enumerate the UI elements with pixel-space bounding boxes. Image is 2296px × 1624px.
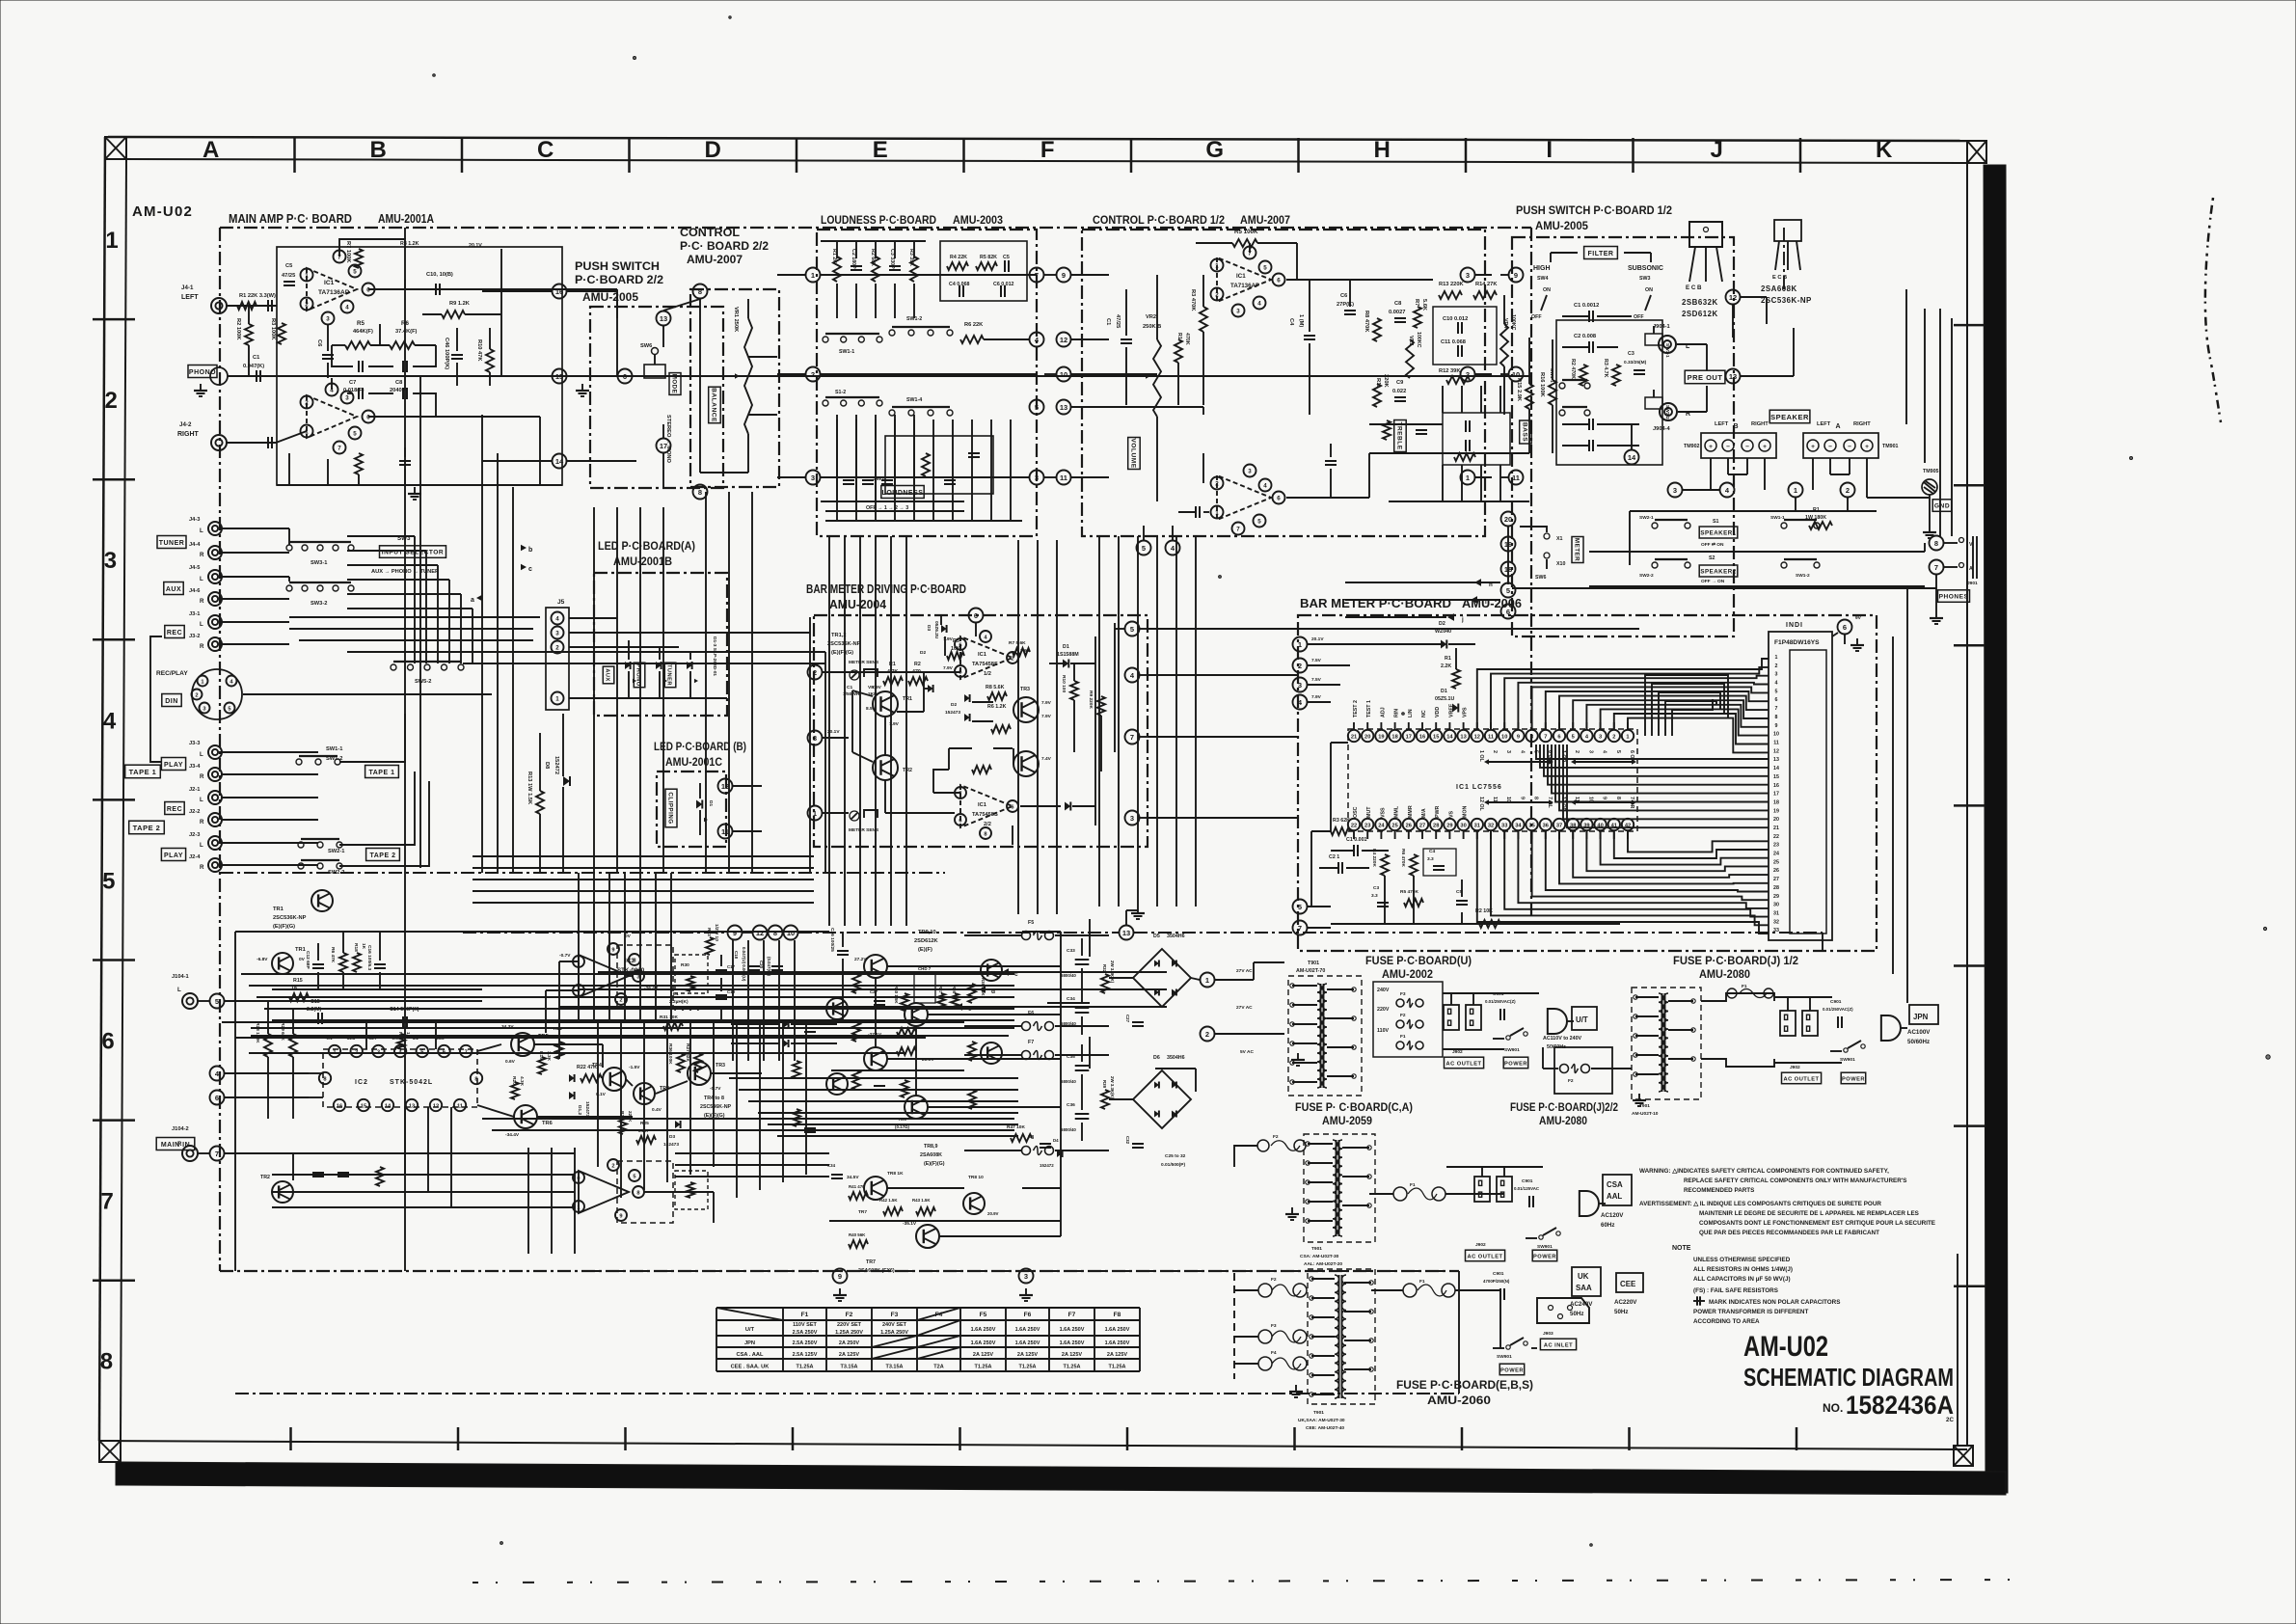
resistor R30 5W 0.47 <box>675 955 708 993</box>
svg-text:F7: F7 <box>1068 1312 1076 1318</box>
svg-text:6: 6 <box>366 415 370 421</box>
coil L1 2.2uH <box>669 991 698 1011</box>
svg-text:23: 23 <box>1773 843 1779 849</box>
svg-text:F1: F1 <box>1410 1182 1416 1188</box>
svg-text:AC220V: AC220V <box>1614 1299 1637 1306</box>
bar board node 3 7.5V <box>1293 677 1341 692</box>
svg-text:R32: R32 <box>1102 964 1107 973</box>
svg-text:4: 4 <box>1263 483 1267 490</box>
svg-text:R2 100K: R2 100K <box>235 318 241 340</box>
capacitor C5 bar board <box>1456 880 1468 924</box>
svg-text:OFF → 1 → 2 → 3: OFF → 1 → 2 → 3 <box>866 505 908 511</box>
svg-text:5: 5 <box>1615 750 1621 753</box>
transformer EBS stubs <box>1289 1277 1373 1397</box>
jack J3-3 PLAY L <box>189 741 222 759</box>
control 2/2 wires <box>700 299 777 473</box>
svg-text:R9 220K: R9 220K <box>1088 690 1094 709</box>
svg-text:J: J <box>1711 137 1723 163</box>
sheet left border band <box>99 137 126 1441</box>
svg-text:17: 17 <box>1406 734 1412 740</box>
svg-text:R3 4.7K: R3 4.7K <box>1603 359 1608 378</box>
svg-text:2: 2 <box>105 388 118 414</box>
svg-text:8: 8 <box>698 488 702 497</box>
svg-text:2: 2 <box>1215 481 1219 488</box>
svg-text:3: 3 <box>555 631 559 637</box>
label SW3 INPUT SELECTOR <box>380 535 446 557</box>
svg-text:IC1 LC7556: IC1 LC7556 <box>1456 784 1502 791</box>
resistor R28 100K vertical <box>255 1001 272 1119</box>
transformer U secondary stubs <box>1290 984 1356 1084</box>
svg-text:21: 21 <box>1351 734 1357 740</box>
fuse U wires to outlets <box>1443 993 1539 1049</box>
svg-text:C1: C1 <box>253 355 259 361</box>
label PHONES <box>1938 590 1970 603</box>
svg-text:D5: D5 <box>1153 934 1160 939</box>
svg-text:IC1: IC1 <box>324 280 335 286</box>
corner register mark top-right <box>1967 141 1986 163</box>
capacitor C16 100/6.3 <box>366 932 386 989</box>
svg-text:G: G <box>1205 137 1224 163</box>
loudness switch SW1-1 <box>823 334 882 355</box>
svg-text:0.4V: 0.4V <box>652 1107 662 1113</box>
svg-text:5: 5 <box>215 997 219 1006</box>
control node 9 <box>1044 268 1109 283</box>
transistor TR2 lower <box>260 1175 293 1203</box>
svg-text:B: B <box>370 137 387 163</box>
svg-text:DIN: DIN <box>165 698 178 705</box>
LED PHONO <box>634 647 667 698</box>
svg-text:16: 16 <box>1773 783 1779 789</box>
svg-text:100KC: 100KC <box>1416 332 1421 348</box>
svg-text:14: 14 <box>1628 453 1636 462</box>
transformer T901 EBS <box>1298 1269 1375 1431</box>
svg-text:2.2K: 2.2K <box>1441 663 1451 669</box>
bus nodes 9 12 8 10 <box>728 926 798 940</box>
svg-text:D6: D6 <box>1153 1055 1160 1061</box>
bass network box <box>1443 413 1510 465</box>
svg-text:0: 0 <box>577 1176 580 1181</box>
svg-text:M/A: M/A <box>1421 808 1427 818</box>
capacitor C18 C20 labels <box>734 947 783 982</box>
svg-text:7.9V: 7.9V <box>1311 694 1322 700</box>
svg-text:4: 4 <box>1602 750 1607 753</box>
svg-text:5: 5 <box>353 269 357 276</box>
label PHONO <box>188 365 217 378</box>
svg-text:J902: J902 <box>1452 1049 1463 1055</box>
resistor R8 470K <box>1364 311 1381 341</box>
resistor R15 2.9K <box>1516 338 1533 453</box>
svg-text:PLAY: PLAY <box>164 853 183 859</box>
bar meter mid diodes <box>945 694 993 721</box>
svg-text:6: 6 <box>623 372 627 381</box>
svg-text:1: 1 <box>577 1204 580 1210</box>
power node 4 <box>210 1067 310 1081</box>
transistor TR1 bar <box>866 685 912 727</box>
bridge rectifier D5 <box>1133 934 1191 1007</box>
svg-text:(E)(F)(G): (E)(F)(G) <box>924 1161 945 1167</box>
svg-text:C6: C6 <box>1340 293 1347 299</box>
maze wiring top fan <box>1477 659 1769 752</box>
driver area long horizontals <box>675 1078 1018 1177</box>
svg-text:20.9V: 20.9V <box>922 1057 934 1063</box>
svg-text:1W 180K: 1W 180K <box>1805 515 1826 521</box>
svg-text:C36: C36 <box>1067 1102 1075 1108</box>
svg-text:C32: C32 <box>1125 1136 1130 1145</box>
svg-text:R40 56K: R40 56K <box>849 1232 866 1237</box>
svg-text:6800/40: 6800/40 <box>1061 1079 1076 1084</box>
wire control mid h <box>1109 406 1203 408</box>
svg-text:D3: D3 <box>926 625 932 631</box>
svg-text:23: 23 <box>1364 823 1370 828</box>
svg-text:28: 28 <box>1773 885 1779 891</box>
svg-text:PUSH SWITCH P·C·BOARD 1/2: PUSH SWITCH P·C·BOARD 1/2 <box>1516 203 1672 217</box>
svg-text:F8: F8 <box>1028 1135 1034 1141</box>
speaker switch SW1-2 <box>1781 559 1820 579</box>
svg-text:FUSE P· C·BOARD(C,A): FUSE P· C·BOARD(C,A) <box>1295 1100 1413 1114</box>
svg-text:2SB632K: 2SB632K <box>1682 298 1718 307</box>
speaker switch SW1-1 <box>1770 515 1820 528</box>
transformer T901 J <box>1632 988 1701 1117</box>
svg-text:J5: J5 <box>557 599 565 606</box>
svg-text:4: 4 <box>345 305 349 311</box>
plug CSA <box>1580 1191 1606 1216</box>
loudness lower inner box <box>885 436 993 494</box>
capacitor C12 68P <box>305 943 324 989</box>
svg-text:J4-1: J4-1 <box>181 284 194 291</box>
svg-text:IC1: IC1 <box>978 802 986 808</box>
svg-text:C46 100P(K): C46 100P(K) <box>444 338 449 369</box>
svg-text:AMU-2005: AMU-2005 <box>1535 219 1588 232</box>
svg-text:7: 7 <box>1775 706 1778 712</box>
wire pin12 to pre-out <box>1733 305 1794 376</box>
svg-text:2: 2 <box>619 997 622 1003</box>
svg-text:5: 5 <box>1142 544 1146 553</box>
sheet right border <box>1966 141 1968 1447</box>
capacitor C1 coupling <box>243 355 264 382</box>
jack J3-2 REC R <box>189 634 222 651</box>
fuse F8 supply <box>964 1135 1109 1155</box>
svg-text:TA7136AP: TA7136AP <box>1230 283 1259 289</box>
svg-text:2W 3.3K(K): 2W 3.3K(K) <box>1110 961 1115 984</box>
wire phono stage to bus <box>405 228 501 376</box>
svg-text:J104-2: J104-2 <box>172 1126 189 1132</box>
speaker terminal strip A <box>1803 421 1899 458</box>
svg-text:F1: F1 <box>1419 1279 1425 1285</box>
jack J904-4 R preout <box>1653 403 1690 432</box>
power rail top wire <box>235 932 829 1271</box>
svg-text:D4: D4 <box>1053 1138 1059 1143</box>
svg-text:RECOMMENDED PARTS: RECOMMENDED PARTS <box>1684 1187 1754 1194</box>
svg-text:C10, 10(B): C10, 10(B) <box>426 272 453 278</box>
LC7556 bottom pin row <box>1348 797 1634 839</box>
svg-text:0V: 0V <box>299 957 306 962</box>
wire speaker A to phones <box>1796 498 1929 511</box>
resistor R10 100 <box>1061 675 1078 700</box>
svg-text:AMU-2001A: AMU-2001A <box>378 211 434 226</box>
bridge rectifier D6 <box>1133 1055 1191 1128</box>
svg-text:C17: C17 <box>727 964 736 969</box>
op-amp IC1 pins <box>301 251 375 325</box>
svg-text:2SA608K: 2SA608K <box>920 1152 942 1158</box>
label GND <box>1932 500 1952 512</box>
svg-text:2: 2 <box>1215 292 1219 299</box>
svg-text:T901: T901 <box>1308 961 1319 966</box>
balance pot VR1 <box>729 299 752 473</box>
svg-text:10: 10 <box>1501 734 1507 740</box>
svg-text:7: 7 <box>1236 527 1240 533</box>
capacitor C8 0.0027 <box>1389 301 1406 322</box>
svg-text:AC100V: AC100V <box>1907 1029 1931 1036</box>
svg-text:8: 8 <box>636 1190 639 1196</box>
LC7556 top arrows <box>1484 759 1636 765</box>
svg-text:0.01/250VAC(Z): 0.01/250VAC(Z) <box>1485 999 1516 1004</box>
jack J4-5 AUX L <box>189 565 222 583</box>
svg-text:MARK INDICATES NON POLAR CAPAC: MARK INDICATES NON POLAR CAPACITORS <box>1709 1299 1840 1306</box>
svg-text:5: 5 <box>959 669 961 675</box>
svg-text:22: 22 <box>1351 823 1357 828</box>
svg-text:13: 13 <box>660 314 667 323</box>
svg-text:2SD612K: 2SD612K <box>914 938 939 944</box>
svg-text:2.5A 250V: 2.5A 250V <box>793 1340 818 1346</box>
svg-text:20.1V: 20.1V <box>1311 636 1324 642</box>
svg-text:9: 9 <box>1517 734 1520 740</box>
svg-text:FUSE P·C·BOARD(U): FUSE P·C·BOARD(U) <box>1365 954 1472 967</box>
svg-text:26: 26 <box>1406 823 1412 828</box>
svg-text:6: 6 <box>1277 496 1281 502</box>
svg-text:6: 6 <box>443 1049 446 1055</box>
svg-text:BASS: BASS <box>1521 422 1527 442</box>
control node 13 <box>1057 400 1110 415</box>
phones nodes 8 7 <box>1930 536 1944 575</box>
svg-text:5: 5 <box>353 431 357 438</box>
label AUX <box>164 582 183 595</box>
svg-text:C18: C18 <box>734 951 739 960</box>
svg-text:19: 19 <box>1773 808 1779 814</box>
svg-text:T2A: T2A <box>933 1365 943 1370</box>
label U/T <box>1572 1007 1597 1030</box>
bar board node 2 7.5V <box>1293 658 1351 673</box>
svg-text:1: 1 <box>201 679 203 685</box>
svg-text:2SD612K: 2SD612K <box>1682 310 1718 318</box>
resistor R10 47K <box>476 328 494 386</box>
loudness node 3 <box>777 471 821 485</box>
svg-text:SPEAKER2: SPEAKER2 <box>1700 569 1736 576</box>
filter pushbutton SW3-1 <box>1645 326 1670 358</box>
svg-text:1.6A 250V: 1.6A 250V <box>1015 1340 1040 1346</box>
svg-text:BAR METER P·C·BOARD: BAR METER P·C·BOARD <box>1300 596 1451 610</box>
svg-text:F3: F3 <box>1400 991 1406 997</box>
svg-text:3: 3 <box>1466 271 1470 280</box>
label AC INLET <box>1540 1331 1576 1350</box>
svg-text:12: 12 <box>1773 748 1779 754</box>
svg-text:TR9,10: TR9,10 <box>918 930 936 935</box>
svg-text:MON: MON <box>1463 805 1469 818</box>
svg-text:AM-U02T-70: AM-U02T-70 <box>1296 968 1325 974</box>
fuse EBS F2 F3 F4 loops <box>1258 1277 1307 1370</box>
resistor R7 100K <box>345 241 363 268</box>
capacitor C6 550(F) <box>316 324 334 378</box>
svg-text:D8: D8 <box>544 762 550 769</box>
transistor TR3 bar <box>1013 687 1052 722</box>
svg-text:SW901: SW901 <box>1504 1047 1520 1053</box>
svg-text:4: 4 <box>1775 681 1778 687</box>
svg-text:6: 6 <box>1277 278 1281 284</box>
fuse CA F2 loop <box>1234 1134 1306 1167</box>
svg-text:SAA: SAA <box>1576 1284 1592 1292</box>
svg-text:5: 5 <box>102 868 115 894</box>
svg-text:HIGH: HIGH <box>1533 265 1551 272</box>
wire right edge verticals <box>1925 309 1952 536</box>
speaker switch SW2-1 <box>1639 515 1690 528</box>
resistor R5 10K bar <box>947 638 964 660</box>
svg-text:2A 125V: 2A 125V <box>1062 1352 1083 1358</box>
svg-text:152472: 152472 <box>1040 1163 1054 1168</box>
wire control bus h2 <box>1109 373 1157 375</box>
svg-text:3.3: 3.3 <box>1427 856 1434 862</box>
svg-text:AC OUTLET: AC OUTLET <box>1467 1254 1502 1259</box>
svg-text:R42 1.5K: R42 1.5K <box>879 1198 898 1203</box>
svg-text:POWER: POWER <box>1504 1061 1527 1067</box>
label LOUDNESS switch <box>866 476 924 511</box>
svg-text:3: 3 <box>1035 474 1039 482</box>
svg-text:AM-U02T-10: AM-U02T-10 <box>1632 1111 1659 1117</box>
svg-text:POWER: POWER <box>1533 1254 1556 1259</box>
bus arrows c d e <box>559 968 1167 1013</box>
svg-text:REPLACE SAFETY CRITICAL COMPON: REPLACE SAFETY CRITICAL COMPONENTS ONLY … <box>1684 1177 1906 1184</box>
svg-text:R5: R5 <box>357 320 365 327</box>
resistor R6 1.2K bar <box>987 704 1011 733</box>
svg-text:1K: 1K <box>361 943 366 950</box>
svg-text:9V: 9V <box>1855 615 1862 621</box>
svg-text:TR8 1K: TR8 1K <box>887 1171 904 1177</box>
svg-text:BALANCE: BALANCE <box>710 388 716 422</box>
svg-text:R6 47K: R6 47K <box>330 947 336 963</box>
svg-text:LED P·C·BOARD (B): LED P·C·BOARD (B) <box>654 740 746 753</box>
svg-text:7: 7 <box>101 1189 114 1215</box>
wire loudness bus 3 <box>821 476 1029 478</box>
plug JPN <box>1881 1015 1907 1041</box>
svg-text:27.2V: 27.2V <box>854 957 867 962</box>
svg-text:B: B <box>1733 423 1738 430</box>
svg-text:AMU-2004: AMU-2004 <box>829 597 887 611</box>
svg-text:c: c <box>1014 971 1018 978</box>
op-amp IC1 TA75458S half2 <box>960 785 1013 827</box>
wire left channel long rail <box>405 289 617 376</box>
svg-text:464K(F): 464K(F) <box>353 329 373 335</box>
svg-text:4: 4 <box>1519 750 1525 753</box>
svg-text:2.2µH(K): 2.2µH(K) <box>669 999 689 1005</box>
svg-text:R1: R1 <box>1176 333 1182 339</box>
svg-text:0.01/250VAC(Z): 0.01/250VAC(Z) <box>1823 1007 1853 1012</box>
svg-text:21: 21 <box>1773 826 1779 831</box>
vertical bus wires right of control <box>1018 540 1057 914</box>
svg-text:4.3K: 4.3K <box>519 1076 525 1087</box>
svg-text:U/T: U/T <box>745 1327 755 1333</box>
svg-text:AMU-2001C: AMU-2001C <box>665 755 722 769</box>
svg-text:PRE OUT: PRE OUT <box>1688 373 1723 382</box>
transistor TR1 power <box>257 947 306 974</box>
svg-text:9: 9 <box>733 929 737 937</box>
svg-text:C8: C8 <box>395 380 402 386</box>
speaker terminal strip B <box>1684 421 1776 458</box>
svg-text:ALL CAPACITORS IN µF 50 WV(J): ALL CAPACITORS IN µF 50 WV(J) <box>1693 1276 1791 1283</box>
filter pushbutton SW3-2 <box>1645 390 1670 420</box>
resistor R36 100K R27 82K <box>667 1043 702 1072</box>
svg-text:TEST 1: TEST 1 <box>1366 700 1372 717</box>
svg-text:ACCORDING TO AREA: ACCORDING TO AREA <box>1693 1318 1760 1325</box>
svg-text:1 OL: 1 OL <box>1478 750 1484 763</box>
op-amp IC1 TA75458S half1 <box>960 636 1013 679</box>
svg-text:R9 1.2K: R9 1.2K <box>449 301 471 307</box>
svg-text:12: 12 <box>1060 336 1067 344</box>
power switch SW901 EBS <box>1493 1338 1527 1360</box>
node 13 top <box>657 311 671 348</box>
svg-text:2A 125V: 2A 125V <box>1017 1352 1039 1358</box>
svg-text:C1 0.001: C1 0.001 <box>1346 837 1367 843</box>
svg-text:C901: C901 <box>1493 1271 1504 1277</box>
svg-text:6800/40: 6800/40 <box>1061 1127 1076 1132</box>
svg-text:10: 10 <box>1060 370 1067 379</box>
svg-text:34.3V: 34.3V <box>501 1024 514 1030</box>
svg-text:-0.7V: -0.7V <box>559 953 571 959</box>
svg-text:8: 8 <box>1533 797 1539 799</box>
AC outlet sockets U <box>1444 1005 1481 1030</box>
svg-text:VR1 250K: VR1 250K <box>733 307 739 333</box>
svg-text:C7: C7 <box>349 380 356 386</box>
label POWER CA <box>1532 1250 1557 1261</box>
svg-text:13: 13 <box>1773 757 1779 763</box>
svg-text:14: 14 <box>1773 766 1779 771</box>
svg-text:SW901: SW901 <box>1840 1057 1855 1063</box>
svg-text:J4-2: J4-2 <box>179 421 192 428</box>
wire loudness bus 2 <box>821 373 1037 375</box>
svg-text:METER: METER <box>1574 538 1580 561</box>
svg-text:TA75458S: TA75458S <box>972 662 998 667</box>
phones ground <box>1930 575 1943 624</box>
resistor R6 470K bar board <box>1400 849 1418 876</box>
transistor TR4 bar <box>1013 751 1052 776</box>
svg-text:152473: 152473 <box>945 710 960 716</box>
svg-text:MML: MML <box>1394 805 1400 818</box>
svg-text:AC INLET: AC INLET <box>1544 1342 1573 1348</box>
svg-text:0.0027: 0.0027 <box>1389 310 1405 315</box>
transistor TR2 bar <box>873 755 912 780</box>
label MAIN IN <box>156 1138 195 1150</box>
svg-text:R13 220K: R13 220K <box>1439 282 1465 287</box>
board push switch 1/2 outline <box>1512 237 1734 636</box>
svg-text:8: 8 <box>1934 539 1938 548</box>
svg-text:3: 3 <box>1236 309 1240 315</box>
resistor R1 470K <box>1175 333 1190 405</box>
resistor R29 68K vertical <box>280 1009 297 1119</box>
svg-text:TR1: TR1 <box>903 696 912 702</box>
svg-text:5: 5 <box>1263 265 1267 272</box>
resistor R5 100K top <box>1196 229 1297 247</box>
svg-text:C16 100/6.3: C16 100/6.3 <box>366 945 372 970</box>
svg-text:ALL RESISTORS IN OHMS 1/4W(J): ALL RESISTORS IN OHMS 1/4W(J) <box>1693 1266 1793 1273</box>
svg-text:R30: R30 <box>681 962 689 968</box>
pot VR4 100KC <box>1500 295 1516 415</box>
svg-text:R38 1.5K: R38 1.5K <box>981 978 986 996</box>
svg-text:9: 9 <box>1775 723 1778 729</box>
svg-text:NOTE: NOTE <box>1672 1245 1691 1252</box>
svg-text:−: − <box>1745 444 1749 450</box>
svg-text:SW2-1: SW2-1 <box>1639 515 1654 521</box>
jack J904-1 L preout <box>1653 324 1690 353</box>
svg-text:7.9V: 7.9V <box>943 665 954 671</box>
svg-text:31: 31 <box>1474 823 1480 828</box>
svg-text:220V SET: 220V SET <box>837 1322 862 1328</box>
